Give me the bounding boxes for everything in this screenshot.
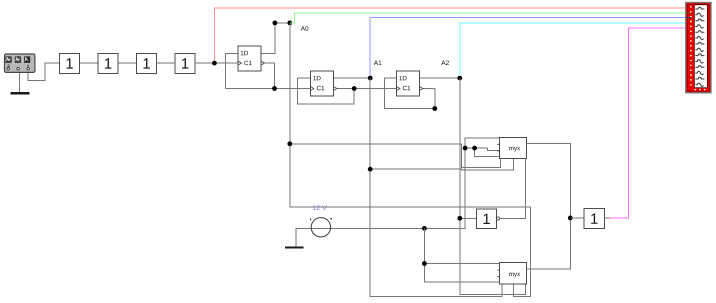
node mux2 input branch [422,261,427,266]
wire source branch down to mux2 inputs [424,228,499,282]
wire mux1 input B from node [465,148,499,150]
wire FF2 Q to node A1 [334,77,371,79]
node CLK junction [212,61,217,66]
node inverter input junction [457,216,462,221]
D flip-flop FF3 [397,71,423,96]
label A2 [441,61,449,66]
node A1 junction [368,76,373,81]
wire MUX1 output to node N1 [527,144,571,218]
buffer U4 [175,53,195,73]
node source branch junction [422,226,427,231]
node mux1 input junction 1 [463,146,468,151]
node N1 junction [568,216,573,221]
wire stub green at analyzer pin [686,12,691,14]
label 12V [313,205,327,210]
label A1 [374,61,382,66]
wire stub blue at analyzer pin [686,17,691,19]
wire MUX2 output to node N1 [527,218,571,269]
wire A1 vertical rail down [370,78,502,296]
function generator G1 [5,54,35,72]
wire mux2 input A [424,263,499,265]
wire A1 blue to analyzer [370,18,686,78]
node mux1 input junction 2 [472,146,477,151]
wire A0 vertical rail down to mux2 select [290,23,531,297]
wire FF3 Q to node A2 [420,77,460,79]
label A0 [301,26,309,31]
wire FF1 D feedback loop [225,53,238,88]
wire generator middle terminal to ground [18,72,20,93]
wire A2 vertical rail down to mux2 select [460,78,526,295]
wire FF2 Qbar to FF3 clock [334,88,397,90]
D flip-flop FF1 [238,46,264,71]
wire U4 to FF1 clock [195,62,238,64]
D flip-flop FF2 [311,71,337,96]
wire inverter output to MUX1 select pin [500,158,526,218]
wire source positive to mux rails [312,138,500,228]
buffer U6 [584,209,605,229]
wire A2 to inverter input [460,217,477,219]
wire CLK red to analyzer [214,8,686,63]
ground (source) [285,246,304,248]
node FF2 Qbar junction [352,86,357,91]
wire generator output to buffer chain [28,63,59,81]
wire U1 to U2 [80,62,99,64]
multiplexer MUX2 [497,263,526,285]
wire U3 to U4 [157,62,176,64]
multiplexer MUX1 [497,137,526,158]
wire A2 cyan to analyzer [460,23,686,78]
voltage source V1 [311,218,333,237]
wire mux1 input C loop [475,148,500,157]
wire A0 green to analyzer [290,13,686,23]
wire source negative to ground [296,228,312,246]
node A1 branch junction [368,167,373,172]
wire output magenta to analyzer [610,28,687,218]
wire FF3 D feedback loop [385,78,435,108]
node FF1 Q top junction [273,21,278,26]
inverter U5 [477,209,500,229]
wire FF1 Qbar down [261,63,275,88]
wire A0 branch to mux1 select pin [290,144,501,168]
wire FF1 Q up to A0 node [261,23,275,53]
node FF1 Qbar junction [272,86,277,91]
wire FF2 D feedback loop [298,78,355,104]
node A0 branch junction [287,141,292,146]
node A2 junction [457,76,462,81]
node A0 junction [287,21,292,26]
buffer U2 [98,53,118,73]
wire FF3 Qbar [420,88,435,90]
logic analyzer LA1 [686,3,711,93]
wire node N1 to buffer U6 [570,217,584,219]
node FF3 loop junction [432,106,437,111]
wire A1 branch to mux1 select pin [370,158,513,170]
wire node A0 top link [275,22,290,24]
wire U6 output stub [605,217,610,219]
buffer U1 [60,53,80,73]
buffer U3 [137,53,157,73]
wire FF1 Qbar to loop and FF2 clock [225,88,310,90]
wire U2 to U3 [118,62,137,64]
ground (generator) [10,92,29,94]
